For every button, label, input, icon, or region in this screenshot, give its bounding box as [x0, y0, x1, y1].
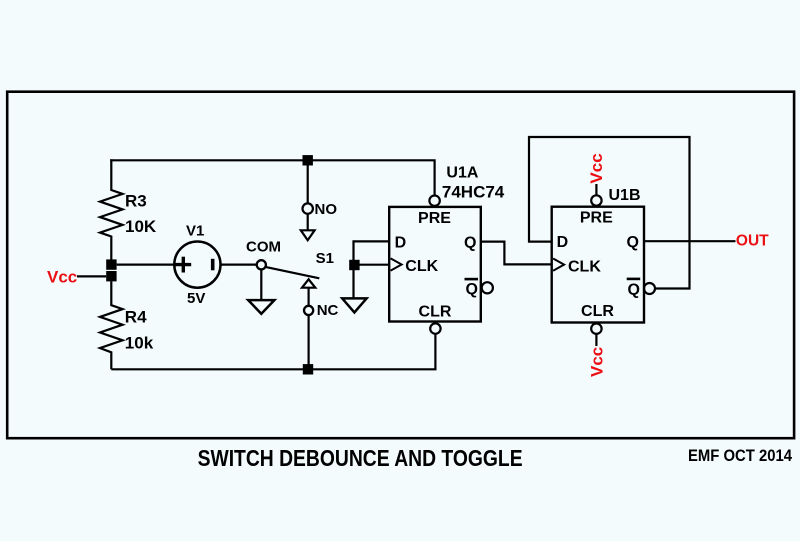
svg-text:5V: 5V [187, 290, 205, 307]
svg-text:V1: V1 [186, 223, 204, 240]
svg-text:Q: Q [628, 281, 640, 298]
svg-text:SWITCH DEBOUNCE AND TOGGLE: SWITCH DEBOUNCE AND TOGGLE [198, 445, 523, 471]
ground (COM) [248, 270, 274, 314]
svg-text:PRE: PRE [580, 210, 613, 227]
switch S1 lever [265, 267, 319, 278]
svg-text:D: D [395, 234, 407, 251]
wire NC arrow to NC terminal [308, 288, 310, 306]
switch NC contact arrow [302, 279, 315, 287]
wire V1 left [117, 264, 175, 266]
flip-flop U1A [389, 196, 493, 334]
wire D input [354, 241, 389, 298]
svg-text:EMF OCT 2014: EMF OCT 2014 [688, 447, 792, 465]
wire U1A Q to U1B CLK [481, 242, 552, 265]
flip-flop U1B [552, 195, 655, 334]
switch S1 COM terminal [257, 260, 266, 269]
voltage source V1 [174, 223, 220, 308]
junction D/CLK [349, 260, 359, 270]
svg-text:Vcc: Vcc [588, 347, 607, 377]
junction on top rail [303, 155, 313, 165]
wire feedback Qbar to D [529, 137, 690, 289]
wire Vcc stub [77, 275, 106, 277]
svg-text:Q: Q [627, 234, 639, 251]
switch NC terminal [304, 306, 313, 315]
ground (D/CLK pulldown) [342, 298, 366, 312]
svg-text:74HC74: 74HC74 [442, 183, 505, 202]
svg-text:S1: S1 [316, 250, 334, 267]
svg-text:Q: Q [465, 281, 477, 298]
junction node Vcc upper [106, 259, 116, 269]
switch NO contact arrow [301, 214, 315, 240]
svg-text:Q: Q [464, 235, 476, 252]
svg-text:U1A: U1A [446, 165, 478, 182]
resistor R3 [100, 159, 157, 260]
svg-text:R4: R4 [125, 308, 147, 327]
wire V1 right [221, 264, 257, 266]
svg-text:10k: 10k [125, 334, 154, 353]
junction on bottom rail [303, 364, 313, 374]
svg-text:NO: NO [315, 201, 338, 218]
svg-text:D: D [557, 234, 569, 251]
switch NO terminal [303, 203, 313, 213]
svg-text:10K: 10K [125, 217, 157, 236]
wire NC to bottom rail [308, 315, 310, 365]
svg-text:PRE: PRE [418, 210, 451, 227]
svg-text:CLR: CLR [581, 303, 614, 320]
switch NO branch wire [307, 166, 309, 204]
svg-text:CLR: CLR [419, 304, 452, 321]
wire U1B Q to OUT [644, 240, 736, 242]
wire bottom rail [111, 333, 435, 369]
resistor R4 [100, 281, 154, 369]
svg-text:Vcc: Vcc [47, 267, 77, 286]
svg-text:R3: R3 [125, 192, 147, 211]
svg-text:CLK: CLK [568, 259, 601, 276]
wire U1B PRE stub [595, 184, 597, 195]
svg-text:OUT: OUT [736, 233, 769, 250]
wire CLK input [354, 264, 389, 266]
svg-text:COM: COM [246, 238, 281, 255]
svg-text:NC: NC [317, 302, 339, 319]
svg-text:CLK: CLK [405, 258, 438, 275]
junction node Vcc lower [106, 271, 116, 281]
svg-text:Vcc: Vcc [587, 153, 606, 183]
wire top rail [111, 160, 434, 195]
svg-text:U1B: U1B [609, 187, 641, 204]
wire U1B CLR stub [595, 334, 597, 346]
